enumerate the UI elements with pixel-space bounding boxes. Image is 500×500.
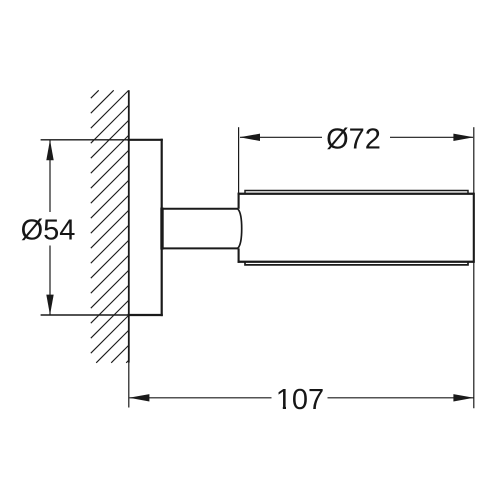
svg-text:Ø72: Ø72	[326, 124, 381, 156]
svg-text:Ø54: Ø54	[21, 215, 76, 247]
svg-text:107: 107	[276, 384, 324, 416]
